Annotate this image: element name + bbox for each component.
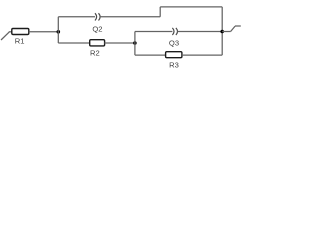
resistor R3 — [166, 52, 182, 58]
svg-text:Q2: Q2 — [92, 24, 102, 33]
contact Q2 (two arcs) — [95, 13, 100, 20]
resistor R1 — [12, 29, 29, 35]
svg-text:R2: R2 — [90, 48, 100, 57]
node junction dot right — [220, 30, 224, 34]
wire R1 to left bus — [29, 31, 59, 33]
wire output segment — [222, 31, 230, 33]
wire R2 branch left segment — [58, 42, 89, 44]
wire Q2 branch right segment — [100, 16, 160, 18]
wire Q3 branch right segment — [178, 31, 223, 33]
wire step-up vertical — [159, 7, 161, 17]
contact Q3 (two arcs) — [172, 28, 177, 35]
wire Q2 branch left segment — [58, 16, 95, 18]
wire top rail — [160, 6, 222, 8]
wire R2 to mid bus — [104, 42, 134, 44]
wire input stub to R1 — [9, 31, 12, 33]
input terminal lead (diagonal) — [1, 32, 9, 40]
svg-text:R1: R1 — [15, 37, 25, 46]
svg-text:R3: R3 — [169, 60, 179, 69]
wire R3 branch left segment — [135, 54, 166, 56]
wire output edge stub — [235, 25, 241, 27]
wire Q3 branch left segment — [135, 31, 173, 33]
resistor R2 — [90, 40, 105, 46]
node junction dot left — [57, 30, 61, 34]
wire left bus vertical — [57, 17, 59, 43]
output terminal lead (diagonal) — [231, 26, 236, 31]
wire right bus vertical — [221, 7, 223, 55]
svg-text:Q3: Q3 — [169, 38, 179, 47]
wire mid bus vertical — [134, 32, 136, 56]
wire R3 to right bus — [182, 54, 222, 56]
node junction dot middle — [133, 41, 137, 45]
